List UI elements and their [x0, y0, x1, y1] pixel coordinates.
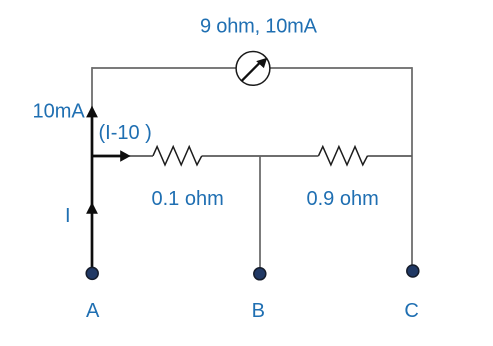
current arrowhead 10mA (upper, pointing up)	[86, 106, 98, 118]
resistor R2 0.9 ohm zigzag	[319, 147, 368, 165]
current arrow (I-10) stem horizontal	[92, 155, 121, 158]
galvanometer G needle	[241, 62, 260, 81]
resistor R1 0.1 ohm zigzag	[153, 147, 202, 165]
svg-text:I: I	[65, 205, 71, 227]
current arrowhead I (lower, pointing up)	[86, 202, 98, 214]
svg-text:B: B	[252, 300, 265, 322]
svg-text:A: A	[86, 300, 100, 322]
wire node B branch down to terminal B	[259, 157, 261, 269]
svg-text:(I-10 ): (I-10 )	[99, 122, 152, 144]
svg-text:10mA: 10mA	[33, 101, 86, 123]
svg-text:9 ohm, 10mA: 9 ohm, 10mA	[200, 16, 318, 38]
current arrowhead (I-10) pointing right	[120, 150, 130, 162]
terminal A dot	[86, 267, 98, 279]
wire middle rail: arrow tip to R1 left lead	[128, 155, 153, 157]
wire R2 right lead to right vertical	[368, 155, 413, 157]
wire middle rail between R1 and R2 (through node B junction)	[202, 155, 319, 157]
terminal B dot	[254, 268, 266, 280]
terminal C dot	[407, 265, 419, 277]
wire left vertical upper segment	[91, 67, 93, 110]
svg-text:0.1 ohm: 0.1 ohm	[152, 188, 224, 210]
svg-text:C: C	[404, 300, 418, 322]
svg-text:0.9 ohm: 0.9 ohm	[307, 188, 379, 210]
wire right vertical (top corner through node to terminal C)	[411, 67, 413, 265]
current arrow stem on A branch (I and 10mA direction)	[91, 112, 94, 272]
wire top-right (galvanometer to C-branch corner)	[271, 67, 413, 69]
galvanometer G needle arrowhead	[256, 58, 267, 68]
galvanometer G (9 ohm, 10mA meter) body	[236, 52, 270, 86]
wire top-left (node between A-branch and galvanometer)	[92, 67, 236, 69]
